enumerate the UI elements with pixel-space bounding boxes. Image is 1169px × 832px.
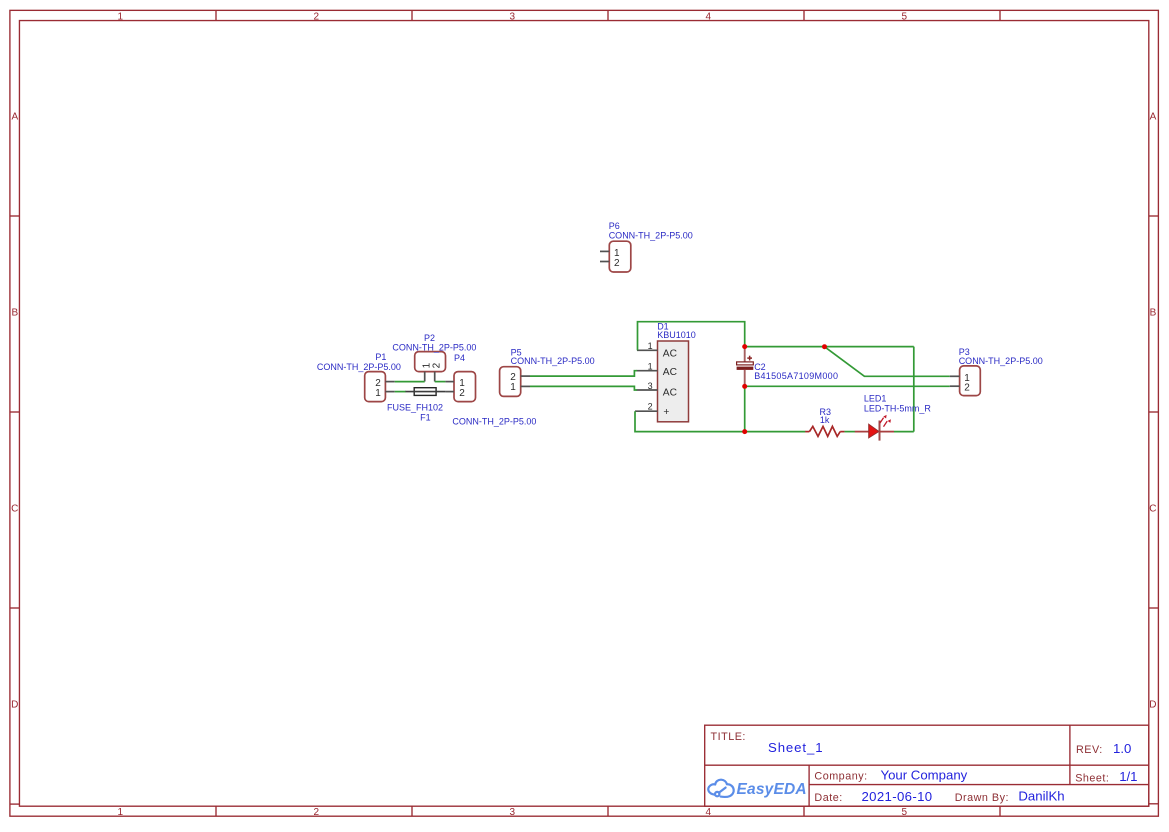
ruler letters left <box>11 111 18 710</box>
svg-text:4: 4 <box>706 807 712 818</box>
svg-text:D: D <box>11 699 18 710</box>
capacitor C2 <box>737 347 754 387</box>
svg-text:1: 1 <box>648 341 653 351</box>
frame column ticks top <box>216 10 1000 20</box>
connector P1 <box>365 372 395 402</box>
wire LED to vertical <box>894 431 914 433</box>
wire D1.2 bottom loop <box>635 411 805 431</box>
wire D1.1 top loop <box>638 322 745 351</box>
svg-text:Your Company: Your Company <box>881 768 968 783</box>
svg-text:3: 3 <box>510 12 516 23</box>
svg-text:2: 2 <box>964 383 970 394</box>
wire P5.2 to D1 <box>530 371 637 376</box>
svg-text:REV:: REV: <box>1076 744 1103 756</box>
svg-text:1: 1 <box>375 388 381 399</box>
svg-text:KBU1010: KBU1010 <box>657 330 696 340</box>
svg-text:1.0: 1.0 <box>1113 741 1131 756</box>
ruler letters right <box>1149 111 1156 710</box>
svg-text:AC: AC <box>663 388 677 399</box>
svg-text:2: 2 <box>432 362 443 368</box>
svg-text:3: 3 <box>648 381 653 391</box>
svg-text:P4: P4 <box>454 353 465 363</box>
svg-text:F1: F1 <box>420 413 431 423</box>
svg-text:P1: P1 <box>375 352 386 362</box>
wire P1.2 to P2.1 <box>395 381 425 383</box>
junction dot diagonal <box>822 344 827 349</box>
svg-text:A: A <box>11 111 18 122</box>
svg-text:A: A <box>1150 111 1157 122</box>
wire right vertical <box>913 347 915 432</box>
svg-text:CONN-TH_2P-P5.00: CONN-TH_2P-P5.00 <box>511 356 595 366</box>
LED LED1 <box>855 415 894 441</box>
resistor R3 <box>805 431 809 433</box>
connector P5 <box>500 367 530 397</box>
svg-text:CONN-TH_2P-P5.00: CONN-TH_2P-P5.00 <box>452 417 536 427</box>
bridge rectifier D1 <box>635 341 689 422</box>
svg-text:2: 2 <box>459 388 465 399</box>
wire C2 mid to P3.2 <box>745 385 950 387</box>
svg-text:CONN-TH_2P-P5.00: CONN-TH_2P-P5.00 <box>392 343 476 353</box>
svg-text:1: 1 <box>118 12 124 23</box>
svg-text:P6: P6 <box>609 221 620 231</box>
svg-text:+: + <box>663 407 669 418</box>
svg-text:5: 5 <box>902 807 908 818</box>
svg-text:P2: P2 <box>424 333 435 343</box>
wire C2 bottom <box>744 386 746 431</box>
svg-text:3: 3 <box>510 807 516 818</box>
fuse F1 <box>405 388 445 396</box>
svg-text:TITLE:: TITLE: <box>711 731 746 743</box>
connector P2 <box>415 352 446 382</box>
svg-text:Sheet:: Sheet: <box>1075 772 1109 784</box>
connector P3 <box>950 366 981 396</box>
svg-text:AC: AC <box>663 348 677 359</box>
svg-text:EasyEDA: EasyEDA <box>737 781 807 798</box>
svg-text:Company:: Company: <box>814 771 867 783</box>
svg-text:4: 4 <box>706 12 712 23</box>
svg-text:CONN-TH_2P-P5.00: CONN-TH_2P-P5.00 <box>609 231 693 241</box>
EasyEDA logo cloud <box>708 780 733 797</box>
wire R3 to LED <box>844 431 855 433</box>
svg-text:Drawn By:: Drawn By: <box>955 792 1009 804</box>
wire diagonal to P3.1 <box>825 347 950 377</box>
wire P1.1 to fuse <box>395 391 406 393</box>
svg-text:2: 2 <box>648 402 653 412</box>
svg-text:C: C <box>1149 503 1156 514</box>
junction dot bottom rail <box>742 429 747 434</box>
svg-text:Sheet_1: Sheet_1 <box>768 740 823 755</box>
junction dot top rail left <box>742 344 747 349</box>
svg-text:B41505A7109M000: B41505A7109M000 <box>754 371 838 381</box>
svg-text:Date:: Date: <box>814 792 842 804</box>
svg-text:CONN-TH_2P-P5.00: CONN-TH_2P-P5.00 <box>959 356 1043 366</box>
svg-text:B: B <box>11 307 18 318</box>
svg-text:FUSE_FH102: FUSE_FH102 <box>387 403 443 413</box>
svg-text:1: 1 <box>118 807 124 818</box>
svg-text:1: 1 <box>648 361 653 371</box>
connector P4 <box>445 372 475 402</box>
svg-text:B: B <box>1150 307 1157 318</box>
ruler numbers top <box>118 12 908 23</box>
svg-text:2: 2 <box>614 258 620 269</box>
title block border <box>705 725 1149 806</box>
svg-text:LED1: LED1 <box>864 394 887 404</box>
wire P2.2 to P4.1 <box>435 381 446 383</box>
svg-text:LED-TH-5mm_R: LED-TH-5mm_R <box>864 403 932 413</box>
svg-text:1/1: 1/1 <box>1119 769 1137 784</box>
svg-text:D: D <box>1149 699 1156 710</box>
svg-text:2: 2 <box>314 12 320 23</box>
svg-text:AC: AC <box>663 367 677 378</box>
svg-text:1k: 1k <box>820 415 830 425</box>
svg-text:DanilKh: DanilKh <box>1018 788 1064 803</box>
junction dot C2 mid <box>742 384 747 389</box>
svg-text:2021-06-10: 2021-06-10 <box>862 789 933 804</box>
connector P6 <box>600 241 631 272</box>
frame column ticks bottom <box>216 806 1000 817</box>
wire top rail <box>745 346 914 348</box>
wire P5.1 to D1 <box>530 386 637 390</box>
frame row ticks left <box>10 216 20 804</box>
svg-text:2: 2 <box>314 807 320 818</box>
svg-text:C: C <box>11 503 18 514</box>
svg-text:CONN-TH_2P-P5.00: CONN-TH_2P-P5.00 <box>317 362 401 372</box>
svg-text:5: 5 <box>902 12 908 23</box>
ruler numbers bottom <box>118 807 908 818</box>
frame row ticks right <box>1149 216 1159 804</box>
svg-text:1: 1 <box>510 382 516 393</box>
